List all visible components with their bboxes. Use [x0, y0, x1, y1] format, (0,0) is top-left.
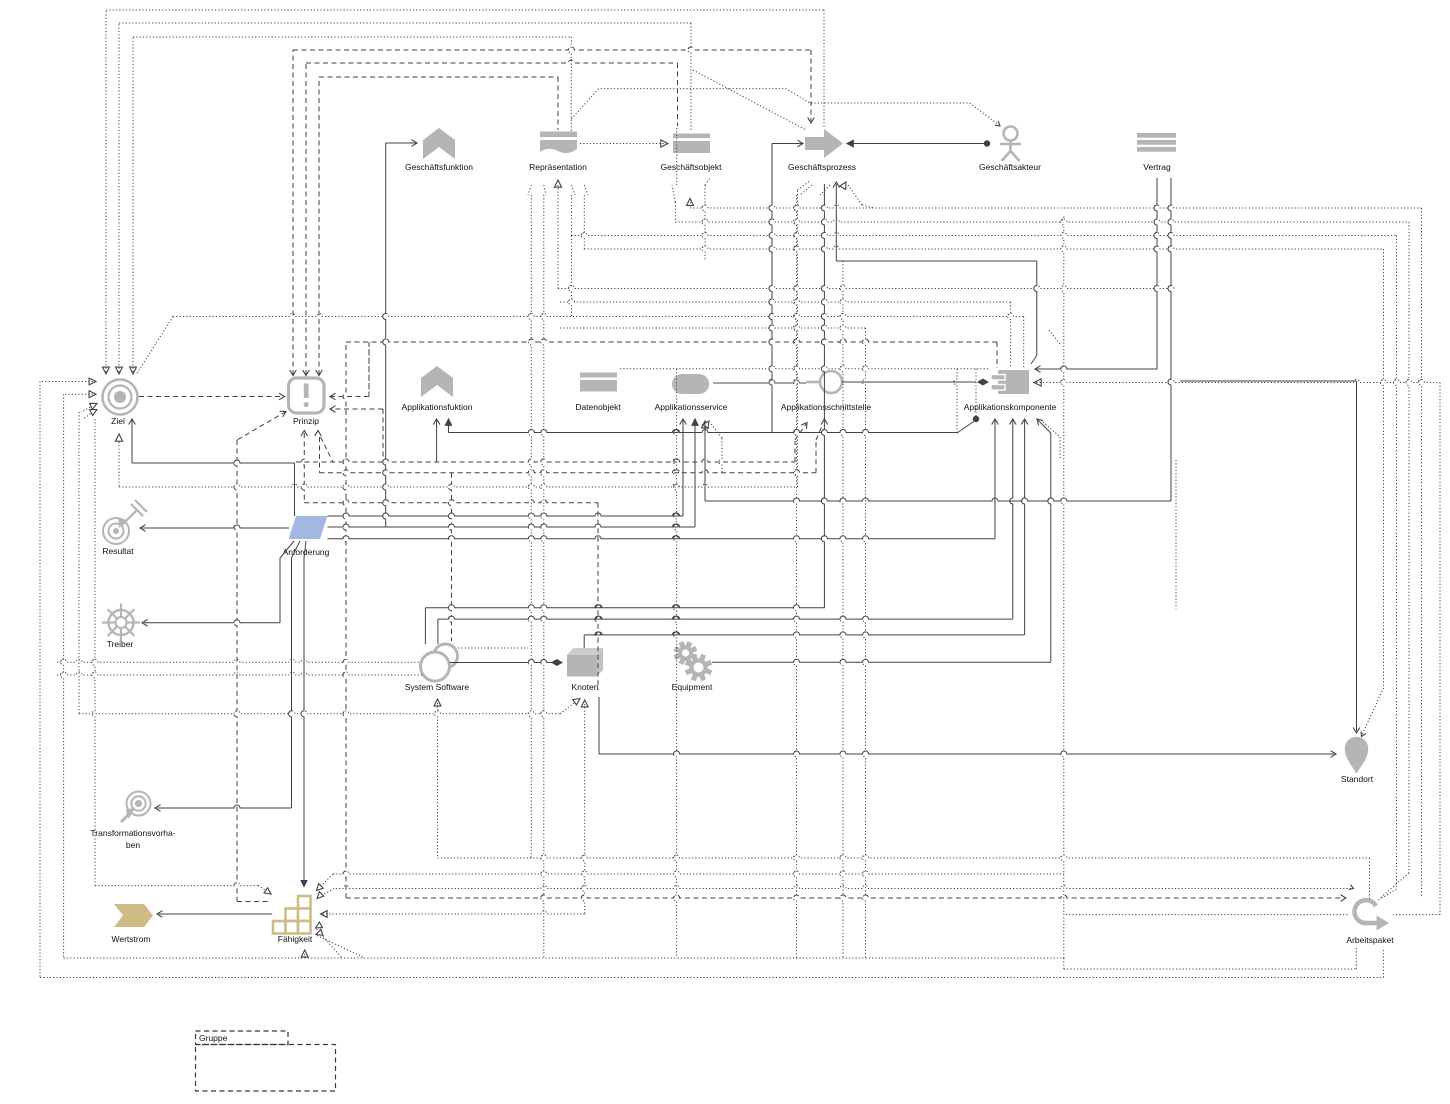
svg-text:Knoten: Knoten: [572, 682, 599, 692]
svg-text:Treiber: Treiber: [107, 639, 134, 649]
svg-text:Geschäftsfunktion: Geschäftsfunktion: [405, 162, 473, 172]
svg-text:Gruppe: Gruppe: [199, 1033, 228, 1043]
svg-text:Applikationsfuktion: Applikationsfuktion: [402, 402, 473, 412]
svg-text:Standort: Standort: [1341, 774, 1374, 784]
svg-text:Repräsentation: Repräsentation: [529, 162, 587, 172]
svg-text:ben: ben: [126, 840, 140, 850]
svg-text:Geschäftsprozess: Geschäftsprozess: [788, 162, 856, 172]
svg-text:System Software: System Software: [405, 682, 470, 692]
svg-text:Transformationsvorha-: Transformationsvorha-: [90, 828, 175, 838]
svg-text:Wertstrom: Wertstrom: [111, 934, 150, 944]
svg-text:Fähigkeit: Fähigkeit: [278, 934, 313, 944]
svg-text:Geschäftsakteur: Geschäftsakteur: [979, 162, 1041, 172]
svg-text:Datenobjekt: Datenobjekt: [575, 402, 621, 412]
svg-text:Applikationsschnittstelle: Applikationsschnittstelle: [781, 402, 872, 412]
svg-text:Resultat: Resultat: [102, 546, 134, 556]
svg-text:Equipment: Equipment: [672, 682, 713, 692]
svg-text:Arbeitspaket: Arbeitspaket: [1346, 935, 1394, 945]
svg-text:Geschäftsobjekt: Geschäftsobjekt: [661, 162, 723, 172]
svg-text:Ziel: Ziel: [111, 416, 125, 426]
svg-text:Prinzip: Prinzip: [293, 416, 319, 426]
svg-text:Applikationsservice: Applikationsservice: [655, 402, 728, 412]
svg-text:Applikationskomponente: Applikationskomponente: [964, 402, 1057, 412]
svg-text:Anforderung: Anforderung: [283, 547, 330, 557]
svg-text:Vertrag: Vertrag: [1143, 162, 1171, 172]
